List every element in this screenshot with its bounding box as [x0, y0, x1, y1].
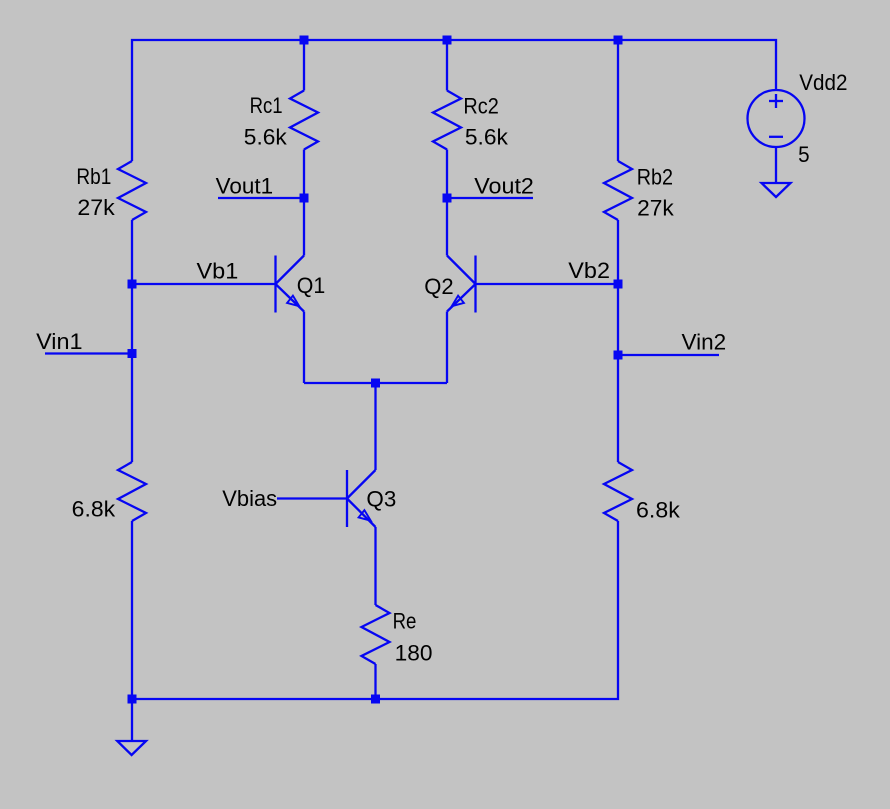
svg-text:27k: 27k	[77, 195, 115, 220]
junction top Rb2	[614, 36, 623, 45]
wire tail drop	[374, 383, 376, 470]
svg-text:5.6k: 5.6k	[244, 125, 288, 150]
svg-text:Q2: Q2	[424, 274, 453, 299]
junction top Rc2	[443, 36, 452, 45]
resistor Rc1	[290, 91, 318, 150]
junction bottom left	[128, 695, 137, 704]
resistor R 6.8k left	[118, 462, 146, 521]
wire Rc1 bottom lead	[303, 150, 305, 256]
svg-text:Vin2: Vin2	[682, 330, 727, 355]
junction Vout1	[300, 194, 309, 203]
resistor Rb2	[604, 161, 632, 220]
transistor Q2	[447, 256, 476, 313]
wire right rail lower	[132, 521, 618, 699]
svg-text:Vb2: Vb2	[568, 258, 610, 283]
resistor Rc2	[433, 91, 461, 150]
wire Q1 emitter drop	[303, 312, 305, 384]
voltage source Vdd2	[748, 90, 805, 147]
svg-text:Vdd2: Vdd2	[799, 70, 847, 95]
svg-text:6.8k: 6.8k	[636, 497, 681, 522]
wire Vb1	[132, 283, 276, 285]
wire Q3 emitter drop	[374, 527, 376, 605]
svg-text:Rc2: Rc2	[463, 93, 498, 118]
svg-text:Rc1: Rc1	[250, 93, 283, 118]
junction bottom Re	[371, 695, 380, 704]
wire right rail upper	[617, 40, 619, 161]
svg-text:5.6k: 5.6k	[465, 125, 509, 150]
resistor Re	[362, 605, 390, 664]
svg-text:5: 5	[798, 142, 810, 167]
svg-text:Vout1: Vout1	[216, 173, 274, 198]
ground left	[117, 741, 146, 755]
junction Vb1	[128, 280, 137, 289]
wire emitter bus	[304, 382, 447, 384]
svg-text:Vbias: Vbias	[222, 486, 277, 511]
wire Vout1 stub	[218, 197, 304, 199]
svg-text:Q1: Q1	[297, 273, 326, 298]
svg-text:Vb1: Vb1	[197, 259, 239, 284]
junction Vin1	[128, 349, 137, 358]
junction emitter bus	[371, 379, 380, 388]
wire Vdd2 bottom	[775, 147, 777, 183]
wire Vout2 stub	[447, 197, 533, 199]
wire Re bottom lead	[374, 664, 376, 699]
wire Q2 emitter drop	[446, 312, 448, 384]
wire Vbias lead	[277, 497, 347, 499]
wire left rail mid	[131, 220, 133, 462]
wire right rail mid	[617, 220, 619, 462]
resistor Rb1	[118, 161, 146, 220]
svg-text:180: 180	[395, 640, 433, 665]
svg-text:6.8k: 6.8k	[72, 496, 117, 521]
svg-text:Vin1: Vin1	[36, 329, 83, 354]
svg-text:Rb2: Rb2	[637, 164, 673, 189]
wire Rc2 top lead	[446, 40, 448, 91]
transistor Q1	[276, 256, 305, 313]
svg-text:Re: Re	[393, 608, 417, 633]
junction Vout2	[443, 194, 452, 203]
wire top rail	[132, 40, 776, 161]
junction top Rc1	[300, 36, 309, 45]
junction Vb2	[614, 280, 623, 289]
wire left rail lower	[131, 521, 133, 741]
wire Vin2 stub	[618, 354, 719, 356]
junction Vin2	[614, 351, 623, 360]
resistor R 6.8k right	[604, 462, 632, 521]
wire Vin1 stub	[45, 352, 132, 354]
ground Vdd2	[762, 183, 791, 197]
svg-text:Vout2: Vout2	[474, 173, 534, 198]
svg-text:Rb1: Rb1	[76, 164, 111, 189]
transistor Q3	[347, 470, 376, 527]
svg-text:27k: 27k	[637, 196, 675, 221]
wire Rc1 top lead	[303, 40, 305, 91]
wire Vb2	[476, 283, 619, 285]
wire Rc2 bottom lead	[446, 150, 448, 256]
svg-text:Q3: Q3	[366, 487, 396, 512]
